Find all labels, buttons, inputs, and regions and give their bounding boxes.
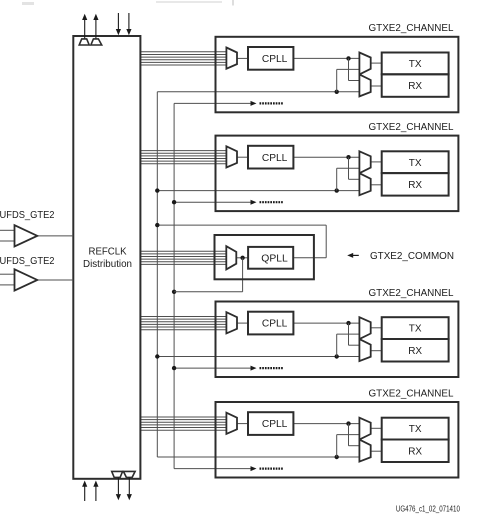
svg-text:GTXE2_CHANNEL: GTXE2_CHANNEL (369, 288, 454, 299)
svg-text:GTXE2_CHANNEL: GTXE2_CHANNEL (369, 23, 454, 34)
svg-text:UFDS_GTE2: UFDS_GTE2 (0, 256, 55, 267)
svg-text:Distribution: Distribution (83, 259, 132, 270)
svg-text:TX: TX (409, 324, 422, 335)
svg-text:RX: RX (408, 346, 422, 357)
svg-text:QPLL: QPLL (261, 253, 288, 264)
svg-text:CPLL: CPLL (262, 319, 288, 330)
svg-text:UFDS_GTE2: UFDS_GTE2 (0, 210, 55, 221)
svg-text:UG476_c1_02_071410: UG476_c1_02_071410 (396, 505, 460, 514)
svg-text:GTXE2_CHANNEL: GTXE2_CHANNEL (369, 388, 454, 399)
svg-text:CPLL: CPLL (262, 153, 288, 164)
svg-text:TX: TX (409, 59, 422, 70)
svg-text:TX: TX (409, 158, 422, 169)
svg-text:GTXE2_COMMON: GTXE2_COMMON (370, 251, 454, 262)
svg-text:REFCLK: REFCLK (89, 247, 127, 258)
svg-text:RX: RX (408, 81, 422, 92)
svg-text:CPLL: CPLL (262, 54, 288, 65)
svg-text:RX: RX (408, 446, 422, 457)
svg-text:GTXE2_CHANNEL: GTXE2_CHANNEL (369, 122, 454, 133)
svg-text:RX: RX (408, 180, 422, 191)
svg-text:CPLL: CPLL (262, 419, 288, 430)
svg-text:TX: TX (409, 424, 422, 435)
